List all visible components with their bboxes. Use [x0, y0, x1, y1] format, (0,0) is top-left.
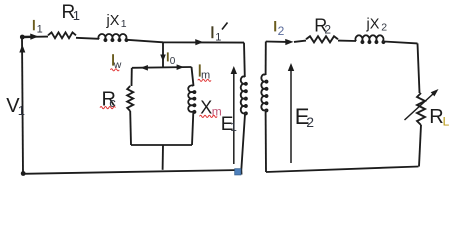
inductor jX2	[355, 35, 384, 43]
wire: left conductor of secondary circuit (upper)	[265, 42, 267, 76]
svg-text:R: R	[429, 106, 443, 128]
label I0	[167, 52, 169, 61]
resistor R2	[306, 36, 338, 42]
emf arrow E2 (up)	[290, 67, 292, 163]
voltage arrow V1 (up)	[19, 45, 25, 53]
wire: shunt center tap to bottom rail	[162, 145, 164, 170]
blue selection-handle square	[235, 169, 241, 175]
wire: shunt top bar	[132, 66, 192, 69]
current arrow Im (right)	[177, 64, 184, 70]
node: bottom-left node dot	[21, 171, 26, 176]
emf arrow E1 (up)	[233, 70, 235, 164]
label Im	[199, 64, 201, 76]
transformer secondary winding	[261, 74, 267, 111]
transformer primary winding	[241, 76, 247, 114]
resistor Rc	[127, 86, 133, 111]
wire: left rail V1	[22, 37, 23, 174]
svg-text:1: 1	[37, 24, 43, 36]
wire: right conductor of secondary circuit (lower)	[419, 125, 421, 167]
label I2	[274, 21, 276, 31]
current arrow Iw (left)	[141, 65, 148, 71]
load rheostat RL	[417, 93, 425, 125]
inductor Xm	[188, 85, 195, 112]
label I1prime	[211, 26, 213, 38]
svg-text:0: 0	[170, 56, 176, 67]
label I1	[33, 20, 35, 30]
resistor R1	[48, 32, 76, 38]
rheostat arrow across RL	[405, 94, 434, 121]
current arrow I2	[285, 39, 293, 45]
svg-text:2: 2	[278, 24, 285, 38]
wire: shunt bottom bar	[131, 144, 192, 146]
wire: right conductor of primary circuit (upper)	[243, 43, 246, 77]
wire: right conductor of primary circuit (lower)	[241, 114, 245, 175]
wire: top rail of secondary circuit	[266, 41, 418, 44]
current arrow I1	[24, 36, 31, 39]
svg-text:1: 1	[121, 18, 127, 30]
svg-text:1: 1	[215, 32, 221, 44]
svg-text:L: L	[443, 114, 450, 128]
inductor jX1	[98, 34, 127, 41]
svg-text:1: 1	[230, 120, 237, 134]
node: top-left input node dot	[20, 35, 25, 40]
wire: shunt drop I0	[162, 42, 164, 67]
wire: shunt right branch upper	[192, 67, 194, 86]
svg-text:jX: jX	[106, 13, 120, 29]
wire: shunt left branch lower	[129, 111, 132, 145]
wire: right conductor of secondary circuit (upper)	[418, 43, 420, 93]
wire: shunt right branch lower	[192, 113, 193, 146]
svg-text:X: X	[200, 97, 212, 117]
wire: bottom rail of primary circuit	[23, 170, 241, 174]
wire: shunt left branch upper	[131, 68, 133, 86]
svg-text:1: 1	[18, 103, 25, 118]
current arrow I0	[160, 55, 166, 62]
svg-text:2: 2	[324, 23, 331, 37]
label Iw	[112, 54, 114, 65]
svg-text:2: 2	[381, 21, 387, 33]
wire: bottom rail of secondary circuit	[266, 167, 419, 173]
svg-text:jX: jX	[366, 16, 380, 32]
current arrow I1prime	[195, 39, 203, 45]
wire: top rail of primary circuit	[22, 37, 244, 43]
svg-text:1: 1	[73, 8, 80, 23]
svg-text:2: 2	[306, 114, 314, 130]
wire: left conductor of secondary circuit (lower)	[265, 111, 267, 172]
svg-text:w: w	[113, 59, 122, 71]
